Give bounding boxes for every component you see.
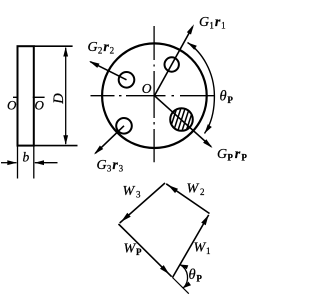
svg-text:W2: W2 xyxy=(187,182,205,198)
svg-text:O: O xyxy=(35,98,45,113)
hole 3 xyxy=(116,118,132,134)
svg-text:θP: θP xyxy=(220,89,234,106)
hole 2 xyxy=(119,72,135,88)
svg-text:D: D xyxy=(51,93,67,105)
angle arc thetaP in polygon xyxy=(180,265,188,289)
svg-text:W1: W1 xyxy=(194,241,211,257)
vector G2r2 line xyxy=(90,62,126,80)
polygon edge W3 (T to L) xyxy=(120,183,165,223)
horizontal centerline xyxy=(91,95,215,97)
svg-text:b: b xyxy=(23,150,30,165)
svg-text:G1r1: G1r1 xyxy=(199,15,226,31)
disc outline circle xyxy=(102,43,207,148)
vector G1r1 line xyxy=(154,27,192,96)
polygon edge W2 (R to T) xyxy=(166,184,209,214)
svg-text:O: O xyxy=(7,98,17,113)
extension line top (for D) xyxy=(34,45,73,47)
svg-text:GPrP: GPrP xyxy=(217,147,247,163)
polygon edge WP (L to B) xyxy=(119,224,172,277)
disc side-view rectangle xyxy=(18,46,34,145)
WP extension line beyond B xyxy=(173,278,189,294)
centerline stub left with label O xyxy=(13,96,19,98)
svg-text:O: O xyxy=(142,81,152,96)
dimension arrows b xyxy=(1,162,17,164)
vector GPrP line xyxy=(154,96,211,147)
vector G3r3 line xyxy=(95,126,124,154)
extension line bottom (for D) xyxy=(34,145,78,147)
centerline stub right with label O xyxy=(33,96,45,98)
svg-text:W3: W3 xyxy=(123,184,141,200)
polygon edge W1 (B to R) xyxy=(173,215,209,278)
svg-text:θP: θP xyxy=(189,267,203,284)
angle arc thetaP on disc xyxy=(188,43,215,134)
svg-text:G3r3: G3r3 xyxy=(97,158,124,174)
hole 1 xyxy=(165,57,179,71)
extension lines for b xyxy=(17,146,19,179)
svg-text:G2r2: G2r2 xyxy=(88,40,115,56)
dimension line D xyxy=(65,48,67,144)
vertical centerline xyxy=(153,26,155,162)
